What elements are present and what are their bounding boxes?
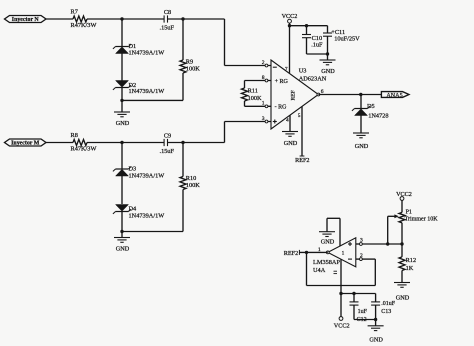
wire VCC rail	[290, 25, 328, 27]
ground	[121, 100, 123, 112]
node junction	[120, 230, 123, 233]
svg-text:REF: REF	[291, 90, 297, 100]
ground	[353, 132, 369, 134]
svg-text:VCC2: VCC2	[396, 191, 412, 198]
wire	[122, 231, 183, 233]
node junction	[359, 93, 362, 96]
wire	[46, 142, 73, 144]
capacitor C10 .1uF	[305, 24, 308, 27]
ground	[394, 282, 410, 284]
svg-text:Trimmer 10K: Trimmer 10K	[405, 217, 439, 223]
U3 pin 4 ground pin	[289, 115, 291, 131]
node junction	[181, 17, 184, 20]
svg-text:1N4728: 1N4728	[368, 113, 388, 120]
svg-text:2: 2	[360, 253, 363, 259]
U3 pin 8 +RG	[245, 80, 272, 82]
resistor R7 R47K/3W	[73, 16, 87, 22]
wire power rail	[341, 293, 376, 295]
op-amp U3 AD623AN	[271, 60, 318, 129]
svg-text:GND: GND	[116, 120, 130, 127]
svg-text:3: 3	[262, 116, 265, 122]
svg-text:D5: D5	[367, 103, 375, 110]
svg-text:R11: R11	[248, 88, 258, 95]
wire	[168, 18, 225, 20]
svg-text:GND: GND	[355, 143, 369, 150]
wire	[121, 176, 123, 204]
U4A pin 2 inverting input	[356, 258, 362, 260]
capacitor C13 .01uF	[375, 294, 377, 303]
off-page connector Inyector N	[5, 16, 47, 23]
feedback wire	[306, 252, 308, 285]
wire	[307, 53, 328, 55]
svg-text:GND: GND	[396, 294, 410, 301]
node junction	[120, 99, 123, 102]
svg-text:R7: R7	[71, 9, 78, 16]
svg-text:1: 1	[342, 251, 345, 257]
U3 pin 3 non-inverting input	[265, 120, 268, 123]
resistor R9 100K	[182, 19, 184, 60]
capacitor C12 1uF	[352, 292, 355, 295]
svg-text:GND: GND	[321, 68, 335, 75]
svg-text:AD623AN: AD623AN	[299, 75, 327, 82]
svg-text:R9: R9	[186, 58, 193, 65]
svg-text:.1uF: .1uF	[311, 42, 323, 49]
svg-text:.01uF: .01uF	[381, 301, 396, 307]
svg-text:+ RG: + RG	[275, 79, 289, 85]
wire	[87, 142, 164, 144]
wire to U3 pin 2	[224, 19, 226, 66]
U4A power pin wire	[340, 259, 342, 316]
off-page connector Inyector M	[5, 139, 47, 146]
wire to U3 pin 3	[224, 122, 226, 143]
svg-text:R47K/3W: R47K/3W	[71, 146, 97, 153]
U3 pin 6 output	[317, 93, 320, 96]
svg-text:GND: GND	[369, 336, 383, 343]
svg-text:U3: U3	[299, 68, 307, 75]
svg-text:Inyector N: Inyector N	[12, 17, 40, 23]
power VCC2 bottom	[339, 317, 343, 321]
svg-text:- RG: - RG	[275, 105, 288, 111]
net label REF2	[298, 250, 300, 255]
wire	[46, 18, 73, 20]
zener diode D5 1N4728	[360, 95, 362, 109]
ground above U4A	[326, 218, 328, 231]
svg-text:C8: C8	[164, 9, 171, 16]
svg-text:GND: GND	[116, 246, 130, 253]
U3 pin 2 inverting input	[265, 64, 268, 67]
U3 pin 5 REF pin	[301, 107, 303, 157]
U4A power pin marker	[334, 270, 338, 272]
svg-text:1: 1	[262, 101, 265, 107]
svg-text:VCC2: VCC2	[334, 323, 350, 330]
off-page connector ANA5	[381, 92, 409, 98]
U3 pin 7 supply	[289, 26, 291, 73]
svg-text:P1: P1	[406, 210, 412, 216]
svg-text:100K: 100K	[248, 95, 262, 102]
svg-text:.15uF: .15uF	[160, 25, 175, 32]
svg-text:R47K/3W: R47K/3W	[71, 22, 97, 29]
resistor R8 R47K/3W	[73, 140, 87, 146]
wire	[121, 54, 123, 81]
ground	[282, 131, 298, 133]
svg-text:1uF: 1uF	[358, 309, 368, 315]
svg-text:R8: R8	[71, 132, 78, 139]
svg-text:C9: C9	[164, 133, 171, 140]
zener diode D1 1N4739A/1W	[121, 19, 123, 47]
svg-text:1N4739A/1W: 1N4739A/1W	[129, 49, 165, 56]
svg-text:R10: R10	[186, 175, 197, 182]
resistor R11 100K gain	[244, 81, 246, 89]
wire	[401, 223, 403, 257]
svg-text:2: 2	[262, 60, 265, 66]
svg-text:1N4739A/1W: 1N4739A/1W	[129, 88, 165, 95]
capacitor C11 10uF/25V	[327, 26, 329, 33]
svg-text:3: 3	[360, 238, 363, 244]
node junction	[120, 17, 123, 20]
capacitor C9 .15uF	[163, 139, 165, 146]
svg-text:1K: 1K	[406, 265, 414, 272]
svg-text:100K: 100K	[186, 66, 200, 73]
svg-text:D4: D4	[129, 205, 138, 212]
U4A pin 3 non-inverting input	[356, 243, 362, 245]
capacitor C8 .15uF	[163, 15, 165, 22]
svg-text:1N4739A/1W: 1N4739A/1W	[129, 213, 165, 220]
ground	[375, 320, 377, 326]
wire	[122, 99, 183, 101]
svg-text:C13: C13	[381, 309, 391, 315]
zener diode D3 1N4739A/1W	[121, 143, 123, 170]
wire	[87, 18, 164, 20]
resistor R12 1K	[399, 257, 405, 271]
svg-text:1N4739A/1W: 1N4739A/1W	[129, 173, 165, 180]
node junction	[120, 141, 123, 144]
U3 pin 1 -RG	[245, 105, 272, 107]
wire U4A pin3 rail	[362, 243, 402, 245]
op-amp U4A LM358AP	[328, 238, 356, 267]
U4A pin 1 output	[326, 251, 329, 254]
svg-text:.15uF: .15uF	[160, 148, 175, 155]
svg-text:ANA5: ANA5	[386, 93, 402, 99]
trimmer wiper arrow	[388, 215, 397, 217]
wire	[354, 319, 376, 321]
trimmer P1 Trimmer 10K	[399, 212, 405, 222]
zener diode D2 1N4739A/1W	[116, 87, 129, 89]
svg-text:D3: D3	[129, 166, 137, 173]
svg-text:100K: 100K	[186, 182, 200, 189]
svg-text:8: 8	[262, 75, 265, 81]
svg-text:GND: GND	[284, 140, 298, 147]
node junction	[305, 251, 308, 254]
svg-text:Inyector M: Inyector M	[11, 141, 40, 147]
wiper wire	[387, 216, 389, 244]
svg-text:10uF/25V: 10uF/25V	[334, 35, 360, 42]
wire	[168, 142, 225, 144]
svg-text:LM358AP: LM358AP	[313, 259, 340, 266]
svg-text:GND: GND	[321, 239, 335, 246]
svg-text:U4A: U4A	[313, 267, 326, 274]
resistor R10 100K	[182, 143, 184, 177]
svg-text:REF2: REF2	[295, 157, 309, 164]
node junction	[181, 141, 184, 144]
ground	[327, 54, 329, 60]
svg-text:REF2: REF2	[284, 250, 298, 257]
svg-text:R12: R12	[406, 257, 417, 264]
ground	[121, 232, 123, 238]
zener diode D4 1N4739A/1W	[116, 211, 129, 213]
